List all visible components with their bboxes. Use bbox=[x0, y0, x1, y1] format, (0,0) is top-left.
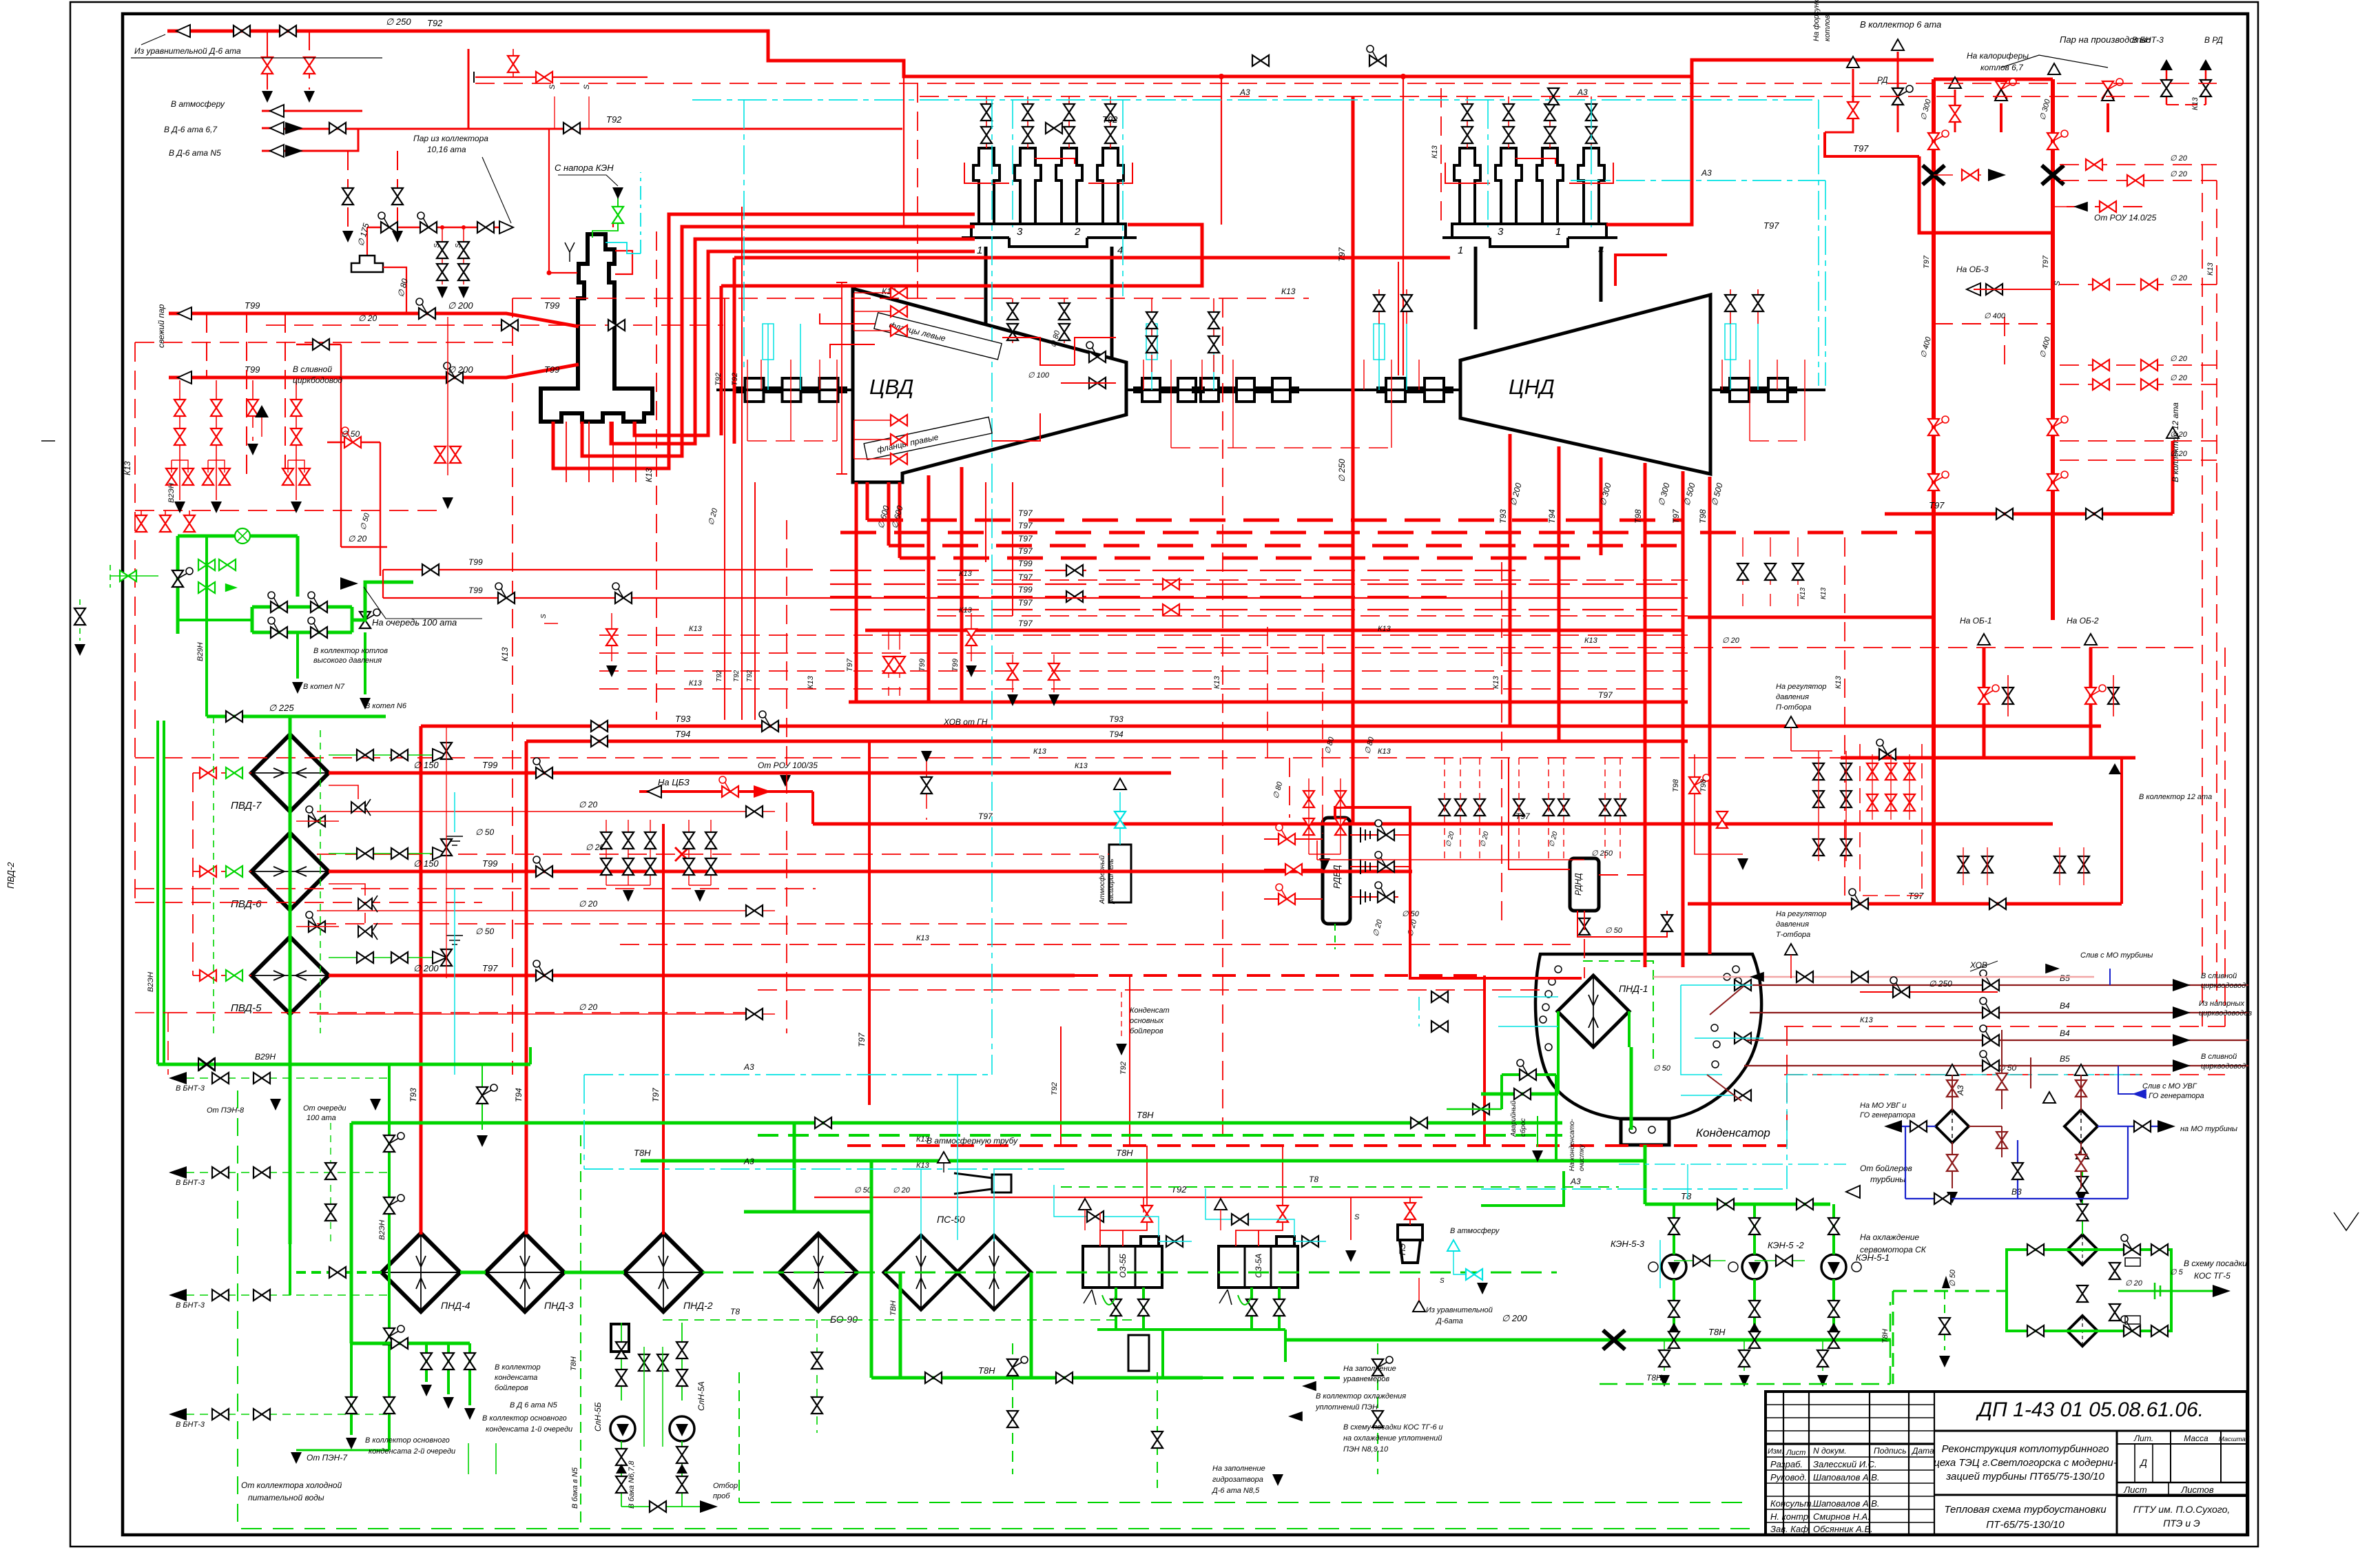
svg-text:∅ 150: ∅ 150 bbox=[413, 858, 439, 869]
ejector funnel bbox=[954, 1173, 992, 1194]
wire Пар на производство 1 bbox=[2000, 103, 2003, 132]
svg-text:Т97: Т97 bbox=[482, 963, 498, 973]
wire Т8Н ∅200 main bbox=[1287, 1339, 1891, 1342]
wire РВД dashed in bbox=[1289, 758, 1290, 818]
label От ПЭН-7 bbox=[296, 1449, 389, 1451]
svg-text:Т93: Т93 bbox=[408, 1088, 418, 1102]
wire ∅20 y1240 bbox=[317, 854, 1109, 855]
svg-text:и ГО генератора: и ГО генератора bbox=[2142, 1092, 2204, 1100]
wire Т97 right low horiz bbox=[1688, 902, 2122, 906]
svg-text:В коллектор 6 ата: В коллектор 6 ата bbox=[1860, 19, 1941, 30]
svg-text:К13: К13 bbox=[1378, 625, 1391, 633]
svg-text:ПВД-2: ПВД-2 bbox=[6, 862, 16, 889]
gland red risers mid bbox=[1143, 360, 1144, 390]
svg-text:основных: основных bbox=[1130, 1017, 1164, 1025]
svg-text:От очереди: От очереди bbox=[303, 1104, 346, 1113]
svg-text:Атмосферный: Атмосферный bbox=[1098, 855, 1106, 905]
В сливной arrow bbox=[255, 405, 269, 417]
svg-text:Т8Н: Т8Н bbox=[1116, 1148, 1133, 1158]
svg-text:Т-отбора: Т-отбора bbox=[1776, 931, 1810, 939]
wire Т93 to ПНД-4 bbox=[420, 726, 423, 1234]
wire ПВД dashed left riser bbox=[192, 773, 194, 975]
svg-text:Т94: Т94 bbox=[1547, 509, 1557, 524]
dashed drops to РВД bbox=[1267, 627, 1268, 758]
svg-text:Т99: Т99 bbox=[468, 557, 483, 567]
svg-text:ПНД-4: ПНД-4 bbox=[441, 1300, 470, 1311]
wire КЭН suction x2662 bbox=[1832, 1204, 1835, 1254]
wire Т94 to ПНД-3 bbox=[525, 741, 528, 1234]
tank ОЗ-5Б bbox=[1083, 1246, 1162, 1288]
svg-text:S: S bbox=[1440, 1277, 1445, 1285]
svg-text:Т98: Т98 bbox=[1699, 778, 1708, 792]
svg-text:∅ 200: ∅ 200 bbox=[1502, 1313, 1527, 1323]
wire ОЗ drop 4 bbox=[1278, 1288, 1281, 1330]
wire condenser to Т8 bbox=[1644, 1145, 1647, 1204]
condenser hotwell bbox=[1621, 1119, 1669, 1145]
drain cluster S cols bbox=[447, 317, 448, 475]
circ arrows+texts bbox=[2173, 979, 2191, 991]
pump КЭН-5-2 bbox=[1742, 1254, 1767, 1279]
steam chest drains bbox=[566, 422, 567, 482]
cyan КЭН box bbox=[1659, 1240, 1661, 1288]
wire МО-1 left blue bbox=[1887, 1126, 1936, 1127]
shaft coupling mid bbox=[1192, 378, 1299, 388]
svg-text:В коллектор: В коллектор bbox=[495, 1363, 541, 1372]
branch x=300 drains bbox=[206, 313, 207, 378]
svg-text:РДВД: РДВД bbox=[1332, 865, 1342, 889]
red valve+drain mid1 bbox=[611, 613, 612, 661]
wire Т97 bundle d2 bbox=[840, 531, 1934, 535]
black valve row mid bbox=[1439, 799, 1450, 816]
wire ОЗ to Т8Н right bbox=[1284, 1330, 1287, 1362]
wire ∅20 y472 mid bbox=[266, 324, 723, 326]
wire ЦНД extraction Т94 x=2263 bbox=[1558, 446, 1561, 741]
svg-text:Т97: Т97 bbox=[2042, 255, 2050, 269]
wire А3 drop x848 bbox=[583, 1075, 585, 1169]
wire Т97 right header low bbox=[1841, 756, 2135, 760]
wire riser 3080 bbox=[2120, 758, 2123, 904]
wire cond neck internal bbox=[1630, 1047, 1633, 1130]
wire А3 drop x1080 bbox=[743, 100, 745, 372]
В29Н bottom valve bbox=[198, 1058, 215, 1071]
wire ПВД feed dashed y1122 bbox=[193, 772, 251, 774]
cyan ОЗ leads bbox=[1054, 1185, 1159, 1237]
svg-text:ПВД-6: ПВД-6 bbox=[231, 898, 262, 910]
heater ПНД-2 bbox=[624, 1233, 703, 1312]
В коллектор 12 ата bbox=[2166, 427, 2179, 438]
wire ∅20 dashed right y=530 bbox=[2060, 364, 2217, 366]
svg-text:В2ЭН: В2ЭН bbox=[147, 972, 155, 992]
wire В БНТ-3 row y1880 bbox=[172, 1294, 389, 1296]
svg-text:Из уравнительной Д-6 ата: Из уравнительной Д-6 ата bbox=[134, 46, 241, 56]
svg-text:ПС-50: ПС-50 bbox=[937, 1214, 965, 1225]
svg-text:В схему посадки КОС ТГ-6 и: В схему посадки КОС ТГ-6 и bbox=[1343, 1423, 1443, 1432]
wire Т97 corner bbox=[1825, 132, 1919, 156]
svg-text:К13: К13 bbox=[1213, 675, 1221, 689]
wire Т99 fresh steam upper bbox=[169, 313, 579, 327]
drain cluster columns bbox=[179, 380, 180, 500]
valves on Т99/Т97 headers bbox=[533, 758, 552, 778]
wire А3 vert x1440 bbox=[991, 100, 993, 1075]
svg-text:S: S bbox=[583, 84, 591, 90]
svg-text:Конденсат: Конденсат bbox=[1130, 1006, 1170, 1015]
svg-text:К13: К13 bbox=[1492, 675, 1500, 689]
svg-text:∅ 50: ∅ 50 bbox=[341, 429, 360, 439]
pump СлН-5Б bbox=[610, 1416, 635, 1441]
wire КЭН discharge x2662 bbox=[1832, 1279, 1835, 1340]
green bott right verticals bbox=[1157, 1372, 1158, 1488]
svg-text:А3: А3 bbox=[1570, 1177, 1581, 1186]
wire vertical x1047 bbox=[720, 286, 723, 435]
wire red vert x1665 от Т92 up bbox=[1146, 1146, 1148, 1197]
wire К13 y1371 bbox=[620, 944, 1571, 945]
svg-text:П-отбора: П-отбора bbox=[1776, 703, 1811, 712]
chest riser ЦВД x1432 bbox=[986, 96, 987, 148]
svg-text:На конденсато-: На конденсато- bbox=[1569, 1119, 1576, 1171]
wire Т92 vert pair bbox=[724, 298, 725, 720]
svg-text:К13: К13 bbox=[2206, 262, 2215, 276]
РВД battery marks bbox=[1360, 827, 1370, 905]
svg-text:Т8: Т8 bbox=[1309, 1175, 1318, 1184]
wire Т97 bundle d3 bbox=[889, 544, 1683, 548]
КЭН valves x2430 bbox=[1668, 1218, 1679, 1234]
svg-text:Т99: Т99 bbox=[544, 300, 559, 311]
svg-text:1: 1 bbox=[1458, 245, 1463, 256]
wire ПНД chain bbox=[296, 1271, 382, 1274]
svg-text:Т97: Т97 bbox=[1853, 143, 1869, 154]
svg-text:Слив с МО турбины: Слив с МО турбины bbox=[2080, 951, 2153, 960]
branch vert 1 w/ drains bbox=[267, 31, 268, 90]
svg-text:3: 3 bbox=[1498, 226, 1504, 238]
wire drain col x=240 bbox=[165, 510, 166, 532]
wire Т97 main left riser bbox=[1932, 79, 1936, 904]
wire В коллектор 12 ата riser bbox=[2171, 441, 2175, 514]
wire А3 long bottom bbox=[584, 1168, 1064, 1170]
svg-text:2: 2 bbox=[1074, 226, 1081, 238]
svg-text:∅ 20: ∅ 20 bbox=[2125, 1279, 2143, 1288]
wire blue slив bbox=[2118, 1066, 2135, 1094]
ЦВД chest downpipe 2 bbox=[1110, 247, 1114, 360]
wire В коллектор 6 ата bbox=[1897, 52, 1899, 132]
svg-text:давления: давления bbox=[1776, 693, 1809, 701]
wire Т99 chest feed 1 bbox=[553, 214, 975, 468]
wire КОС dashed feed bbox=[1893, 1290, 2007, 1292]
gland red risers ЦВД bbox=[747, 360, 748, 390]
svg-text:Изм.: Изм. bbox=[1768, 1447, 1783, 1456]
wire left green drops bbox=[468, 1443, 469, 1474]
circ valves bbox=[1980, 970, 1999, 991]
svg-text:∅ 20: ∅ 20 bbox=[2170, 170, 2188, 178]
vessel ПЭ bbox=[1400, 1240, 1420, 1263]
svg-text:Руковод.: Руковод. bbox=[1770, 1472, 1807, 1482]
svg-text:питательной воды: питательной воды bbox=[248, 1493, 324, 1502]
svg-text:РД: РД bbox=[1877, 75, 1888, 85]
wire ∅20 dashed right y=239 bbox=[2060, 164, 2217, 165]
wire РОУ bypass left bbox=[251, 607, 254, 632]
wire В Д-6 ата 6,7 bbox=[262, 127, 281, 130]
svg-text:К13: К13 bbox=[1820, 588, 1828, 599]
shaft line right bbox=[1710, 389, 1825, 391]
steam chest red loop bbox=[549, 272, 577, 273]
ОЗ caps red feeds bbox=[1099, 1212, 1101, 1230]
wire x1153 drop bbox=[793, 1123, 796, 1212]
wire Т92 verticals from mid bbox=[1060, 1026, 1062, 1146]
branch drains x=505..560 bbox=[347, 151, 349, 227]
shaft coupling left of ЦНД bbox=[1376, 378, 1453, 388]
ОЗ loop seals bbox=[1102, 1295, 1116, 1305]
title block grid bbox=[1766, 1392, 2247, 1535]
svg-text:В коллектор котлов: В коллектор котлов bbox=[313, 647, 388, 655]
svg-text:циркводоводов: циркводоводов bbox=[2199, 1009, 2252, 1017]
svg-text:В коллектор основного: В коллектор основного bbox=[482, 1414, 567, 1423]
svg-text:Т99: Т99 bbox=[1018, 585, 1033, 595]
svg-text:Т8: Т8 bbox=[730, 1307, 740, 1316]
wire ∅20 dashed right y=640 bbox=[2060, 440, 2217, 442]
svg-text:∅ 20: ∅ 20 bbox=[579, 800, 597, 809]
wire В котел feeds bbox=[296, 632, 299, 679]
right margin mark bbox=[2334, 1212, 2359, 1230]
wire green cond у1863 dashed bbox=[703, 1272, 1557, 1274]
wire Т97 cond vertical bbox=[1483, 975, 1486, 1146]
S drain columns bbox=[442, 227, 443, 285]
wire Т97 label run bbox=[1722, 156, 1825, 157]
svg-text:А3: А3 bbox=[1577, 87, 1588, 97]
svg-text:∅ 225: ∅ 225 bbox=[269, 703, 294, 713]
svg-text:очистку: очистку bbox=[1578, 1144, 1586, 1171]
wire Т8Н dashed left x843 bbox=[580, 1135, 581, 1529]
svg-text:В бака N6,7,8: В бака N6,7,8 bbox=[628, 1460, 636, 1509]
svg-text:S: S bbox=[548, 84, 557, 90]
wire cond left internal bbox=[1557, 1011, 1560, 1094]
wire В4b circ bbox=[1747, 1040, 2248, 1041]
ЦНД stop valve chest bbox=[1454, 148, 1480, 224]
gland red risers right bbox=[1721, 360, 1723, 390]
green fine col x565 valves bbox=[384, 1133, 404, 1152]
svg-text:В Д-6 ата 6,7: В Д-6 ата 6,7 bbox=[164, 125, 218, 134]
wire Т92 second header bbox=[281, 128, 902, 130]
wire К13 vert x2180 bbox=[1501, 562, 1502, 923]
cyan atm расширитель bbox=[1119, 792, 1121, 845]
svg-text:ЦНД: ЦНД bbox=[1509, 375, 1555, 399]
green fine x700 drop bbox=[482, 1064, 483, 1130]
wire red thin y905 S bbox=[544, 623, 558, 624]
svg-text:Т97: Т97 bbox=[1515, 812, 1531, 821]
svg-text:∅ 50: ∅ 50 bbox=[475, 827, 494, 837]
svg-text:ПВД-7: ПВД-7 bbox=[231, 800, 262, 812]
svg-text:Т99: Т99 bbox=[544, 364, 559, 375]
pump КЭН-5-3 bbox=[1662, 1254, 1686, 1279]
wire В котел feeds2 bbox=[364, 632, 366, 694]
wire А3 НУ y262 bbox=[1571, 180, 1825, 181]
wire Т99 chest feed 2 bbox=[582, 227, 975, 456]
svg-text:конденсата 1-й очереди: конденсата 1-й очереди bbox=[486, 1425, 572, 1434]
chest riser ЦНД x2250 bbox=[1549, 96, 1551, 148]
flow На ЦБЗ bbox=[648, 785, 661, 798]
wire red vert x1862 connect bbox=[1282, 1146, 1283, 1197]
wire К13 y940 bbox=[1157, 647, 2202, 648]
steam chest top green lead bbox=[592, 196, 618, 238]
МО-1 left arrow bbox=[1884, 1120, 1902, 1133]
gate valves fresh steam bbox=[416, 298, 435, 319]
wire safety кран ПВД-6a bbox=[329, 884, 365, 896]
wire у112 stub bbox=[475, 76, 648, 78]
svg-text:На регулятор: На регулятор bbox=[1776, 910, 1827, 918]
svg-text:К13: К13 bbox=[807, 675, 815, 689]
wire А3 drop x2640 bbox=[1818, 100, 1819, 386]
wire feed drop to B2ЭН line bbox=[388, 1064, 391, 1450]
svg-text:В2ЭН: В2ЭН bbox=[378, 1220, 386, 1240]
svg-text:К13: К13 bbox=[1033, 747, 1047, 756]
tri-вентили К13 col x=648 bbox=[441, 743, 452, 759]
svg-text:уравнемеров: уравнемеров bbox=[1343, 1375, 1389, 1383]
wire В3 left riser bbox=[1905, 1126, 1906, 1199]
wire drain col x=205 bbox=[141, 510, 142, 532]
svg-text:∅ 20: ∅ 20 bbox=[893, 1186, 911, 1195]
svg-text:Т97: Т97 bbox=[978, 812, 993, 821]
svg-text:∅ 200: ∅ 200 bbox=[413, 963, 439, 973]
svg-text:∅ 20: ∅ 20 bbox=[2170, 274, 2188, 282]
cyan cond loops bbox=[1498, 996, 1558, 998]
mid drain stubs bbox=[1444, 758, 1445, 860]
wire КЭН suction x2547 bbox=[1753, 1204, 1756, 1254]
gland red feeds bbox=[747, 440, 837, 442]
svg-text:котлов: котлов bbox=[1823, 14, 1832, 41]
filter box bottom-left bbox=[611, 1324, 629, 1352]
svg-text:В5: В5 bbox=[2060, 1054, 2070, 1064]
condenser instrument taps bbox=[1555, 966, 1562, 973]
wire А3 mid y1560 bbox=[584, 1074, 992, 1075]
svg-text:Из уравнительной: Из уравнительной bbox=[1426, 1306, 1493, 1314]
svg-text:Т92: Т92 bbox=[1102, 114, 1118, 125]
ПВД inlet valves y1265 bbox=[200, 866, 216, 877]
wire Т8 pump suction dashed bbox=[663, 1319, 1137, 1321]
svg-text:Реконструкция котлотурбинного: Реконструкция котлотурбинного bbox=[1942, 1443, 2109, 1455]
wire ЦНД chest right feed bbox=[1606, 60, 1934, 225]
svg-text:Дата: Дата bbox=[1911, 1446, 1934, 1456]
reg cluster valves bbox=[1813, 763, 1824, 780]
svg-text:К13: К13 bbox=[644, 468, 654, 482]
svg-text:В атмосферную трубу: В атмосферную трубу bbox=[927, 1136, 1018, 1146]
valves on y746 bbox=[1996, 508, 2013, 519]
wire авар сброс vert bbox=[1555, 1075, 1558, 1161]
svg-text:В Д 6 ата N5: В Д 6 ата N5 bbox=[510, 1401, 558, 1409]
wire КОС mid ∅20 bbox=[2118, 1290, 2171, 1292]
svg-text:гидрозатвора: гидрозатвора bbox=[1212, 1476, 1263, 1484]
svg-text:Консульт.: Консульт. bbox=[1770, 1498, 1814, 1509]
reducer fitting bbox=[351, 256, 383, 272]
wire dashed box reg bbox=[1860, 744, 1922, 896]
callout Из уравнительной bbox=[131, 34, 382, 58]
svg-text:S: S bbox=[540, 614, 548, 619]
pump КЭН-5-1 bbox=[1821, 1254, 1846, 1279]
svg-text:Зав. Каф.: Зав. Каф. bbox=[1770, 1524, 1811, 1534]
wire ЦНД extraction Т98 x=2482 bbox=[1708, 477, 1712, 954]
wire x1307 ТВН drop bbox=[899, 1272, 902, 1378]
wire ∅50 drop bbox=[327, 442, 380, 443]
svg-text:С напора КЭН: С напора КЭН bbox=[555, 163, 614, 173]
svg-text:От РОУ 100/35: От РОУ 100/35 bbox=[758, 761, 818, 770]
svg-text:S: S bbox=[2053, 280, 2062, 286]
wire ∅20 dashed right y=413 bbox=[2060, 284, 2217, 285]
svg-text:СлН-5Б: СлН-5Б bbox=[593, 1402, 603, 1432]
svg-text:В БНТ-3: В БНТ-3 bbox=[2132, 35, 2164, 45]
chest riser ЦНД x2130 bbox=[1467, 96, 1468, 148]
svg-text:циркводовод: циркводовод bbox=[2201, 1062, 2246, 1071]
svg-text:В коллектор 12 ата: В коллектор 12 ата bbox=[2171, 402, 2180, 482]
svg-text:Н. контр.: Н. контр. bbox=[1770, 1511, 1811, 1522]
wire ПВД drain ∅20 2 bbox=[317, 910, 775, 911]
svg-text:на МО турбины: на МО турбины bbox=[2180, 1125, 2237, 1133]
cyan cond int bbox=[1681, 985, 1722, 1075]
wire ЦВД exhaust Т99 a bbox=[927, 475, 931, 702]
wire РОУ left drop bbox=[176, 536, 180, 634]
wire ТВН bottom header bbox=[871, 1376, 1203, 1380]
svg-text:От бойлеров: От бойлеров bbox=[1860, 1164, 1912, 1173]
svg-text:турбины: турбины bbox=[1870, 1175, 1905, 1184]
svg-text:Из напорных: Из напорных bbox=[2199, 1000, 2245, 1008]
svg-text:Т8Н: Т8Н bbox=[1646, 1373, 1662, 1383]
svg-text:∅ 20: ∅ 20 bbox=[579, 1002, 597, 1012]
red X near УМ bbox=[675, 847, 689, 861]
wire В коллектор drop x619 bbox=[425, 1343, 428, 1382]
wire Т99 chest feed 3 bbox=[611, 239, 975, 444]
wire КОС feed from В3 bbox=[2082, 1171, 2083, 1234]
wire КОС loop top bbox=[2007, 1250, 2171, 1291]
flow arrows fresh steam bbox=[178, 307, 192, 320]
wire Т97 header ∅200 (ПВД-5) bbox=[329, 974, 1075, 978]
svg-text:давления: давления bbox=[1776, 920, 1809, 929]
svg-text:В котел N7: В котел N7 bbox=[303, 683, 345, 691]
СК branch bbox=[1944, 1291, 1945, 1350]
heater ПВД-6 bbox=[251, 833, 329, 910]
heater ПНД-1 in condenser bbox=[1558, 975, 1629, 1047]
wire Т97 y470 link bbox=[1934, 323, 2053, 324]
wire Т99 bundle t1 bbox=[830, 570, 1515, 571]
svg-text:Т8Н: Т8Н bbox=[1708, 1327, 1726, 1337]
wire Т99 fresh steam lower bbox=[169, 364, 579, 378]
svg-text:Залесский И.С.: Залесский И.С. bbox=[1813, 1459, 1877, 1469]
wire МО feeds top bbox=[2001, 1030, 2003, 1109]
svg-text:Т98: Т98 bbox=[1672, 778, 1680, 792]
дренаж fan verticals bbox=[888, 630, 889, 696]
wire А3 right long bbox=[1787, 1074, 2142, 1075]
svg-text:Т92: Т92 bbox=[733, 670, 741, 682]
svg-text:бойлеров: бойлеров bbox=[495, 1384, 528, 1392]
svg-text:на охлаждение уплотнений: на охлаждение уплотнений bbox=[1343, 1434, 1442, 1443]
valve near ОЗ caps bbox=[1166, 1236, 1183, 1247]
shaft coupling right of ЦНД bbox=[1720, 378, 1797, 388]
shaft line mid bbox=[1126, 389, 1460, 391]
svg-text:∅ 200: ∅ 200 bbox=[448, 300, 473, 311]
svg-text:Тепловая схема турбоустановки: Тепловая схема турбоустановки bbox=[1944, 1504, 2107, 1516]
wire ПНД3-2 bbox=[564, 1271, 624, 1274]
cooler ПС-50 left bbox=[884, 1235, 958, 1310]
wire dashed y1470 bbox=[168, 1012, 758, 1013]
РОУ left trim valves bbox=[198, 559, 215, 570]
wire ∅20 dashed right y=558 bbox=[2060, 384, 2217, 385]
svg-text:Смирнов Н.А.: Смирнов Н.А. bbox=[1813, 1511, 1870, 1522]
wire В коллектор drop x682 bbox=[468, 1343, 471, 1405]
heater ПВД-7 bbox=[251, 734, 329, 812]
oil cooler МО-2 bbox=[2065, 1110, 2098, 1143]
svg-text:А3: А3 bbox=[1701, 168, 1712, 178]
svg-text:Отбор: Отбор bbox=[713, 1482, 738, 1490]
svg-text:∅ 50: ∅ 50 bbox=[475, 927, 494, 936]
svg-text:К13: К13 bbox=[1584, 637, 1598, 645]
svg-text:100 ата: 100 ата bbox=[307, 1114, 336, 1122]
wire drain col x=275 bbox=[189, 510, 190, 532]
svg-text:Т94: Т94 bbox=[1109, 730, 1124, 739]
